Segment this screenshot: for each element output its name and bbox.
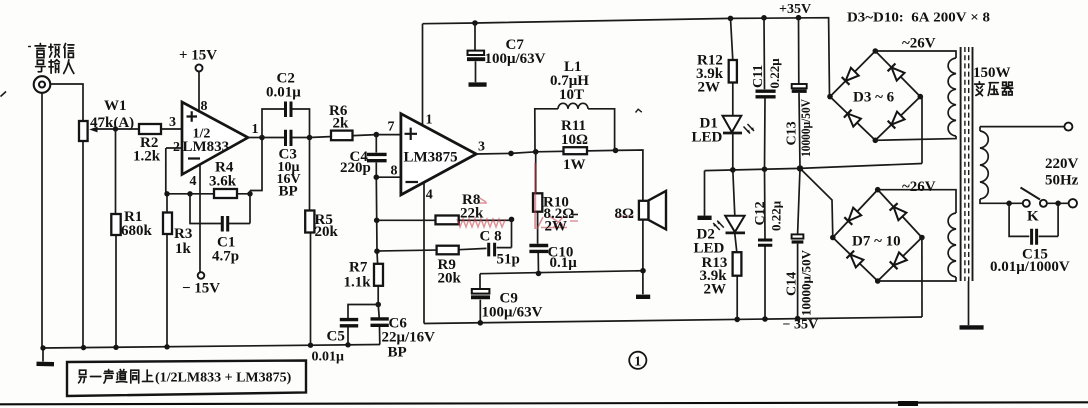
svg-text:2W: 2W (545, 219, 568, 235)
svg-text:1: 1 (426, 113, 433, 128)
svg-text:2: 2 (173, 140, 180, 155)
svg-text:C12: C12 (753, 201, 768, 225)
svg-text:1.1k: 1.1k (344, 275, 372, 291)
svg-text:8: 8 (391, 164, 398, 179)
svg-text:10Ω: 10Ω (561, 132, 588, 148)
svg-text:220V: 220V (1045, 156, 1079, 172)
svg-text:W1: W1 (104, 98, 127, 114)
svg-text:47k(A): 47k(A) (90, 115, 134, 131)
svg-text:LM3875: LM3875 (404, 150, 458, 166)
svg-text:8: 8 (201, 99, 208, 114)
svg-text:+35V: +35V (779, 2, 811, 17)
svg-text:0.22μ: 0.22μ (767, 58, 782, 89)
svg-text:7: 7 (388, 120, 395, 135)
svg-text:1: 1 (252, 122, 259, 137)
svg-text:22μ/16V: 22μ/16V (382, 330, 436, 346)
svg-text:4: 4 (190, 174, 197, 189)
svg-text:C5: C5 (327, 329, 345, 345)
svg-text:1: 1 (634, 355, 641, 370)
svg-text:4.7p: 4.7p (212, 249, 239, 265)
svg-text:220p: 220p (340, 160, 371, 176)
svg-text:50Hz: 50Hz (1045, 173, 1079, 189)
svg-text:C 8: C 8 (480, 229, 502, 245)
svg-text:(1/2LM833 + LM3875): (1/2LM833 + LM3875) (155, 371, 292, 386)
svg-text:0.1μ: 0.1μ (550, 255, 578, 271)
svg-text:10000μ/50V: 10000μ/50V (799, 99, 813, 157)
svg-text:10T: 10T (559, 87, 584, 103)
svg-text:150W: 150W (973, 65, 1011, 81)
svg-text:680k: 680k (121, 223, 153, 239)
svg-text:C13: C13 (785, 121, 800, 145)
svg-text:3.6k: 3.6k (209, 174, 237, 190)
svg-text:BP: BP (279, 184, 298, 200)
svg-text:22k: 22k (460, 206, 484, 222)
svg-text:LED: LED (692, 130, 723, 146)
svg-text:100μ/63V: 100μ/63V (485, 51, 546, 67)
svg-text:2W: 2W (704, 282, 727, 298)
svg-text:LM833: LM833 (183, 139, 230, 155)
svg-text:1.2k: 1.2k (133, 149, 161, 165)
svg-text:20k: 20k (315, 224, 339, 240)
svg-text:3: 3 (169, 115, 176, 130)
svg-text:20k: 20k (438, 271, 462, 287)
svg-text:0.01μ/1000V: 0.01μ/1000V (990, 259, 1070, 275)
svg-text:1W: 1W (563, 157, 586, 173)
svg-text:100μ/63V: 100μ/63V (482, 305, 543, 321)
svg-text:R7: R7 (349, 260, 368, 276)
svg-text:0.01μ: 0.01μ (312, 350, 345, 365)
svg-text:R3: R3 (174, 226, 192, 242)
svg-text:~26V: ~26V (902, 179, 936, 195)
svg-text:2W: 2W (698, 80, 721, 96)
svg-text:8Ω: 8Ω (615, 206, 635, 222)
svg-text:0.22μ: 0.22μ (769, 200, 784, 231)
svg-text:D3 ~ 6: D3 ~ 6 (853, 90, 895, 106)
svg-text:10000μ/50V: 10000μ/50V (800, 250, 814, 316)
svg-text:− 15V: − 15V (182, 281, 220, 297)
svg-text:C14: C14 (785, 272, 800, 296)
svg-text:4: 4 (426, 188, 433, 203)
svg-text:1k: 1k (175, 241, 192, 257)
svg-text:K: K (1027, 209, 1039, 225)
svg-text:2k: 2k (333, 116, 350, 132)
svg-text:BP: BP (388, 345, 407, 361)
svg-text:0.01μ: 0.01μ (266, 85, 301, 101)
svg-text:D3~D10: 6A 200V × 8: D3~D10: 6A 200V × 8 (847, 11, 990, 26)
svg-text:+ 15V: + 15V (179, 48, 217, 64)
svg-text:− 35V: − 35V (783, 318, 819, 333)
svg-text:~26V: ~26V (902, 36, 936, 52)
svg-text:51p: 51p (497, 252, 520, 268)
svg-text:C11: C11 (751, 65, 766, 88)
svg-text:3: 3 (478, 140, 485, 155)
svg-text:D7 ~ 10: D7 ~ 10 (852, 234, 901, 250)
